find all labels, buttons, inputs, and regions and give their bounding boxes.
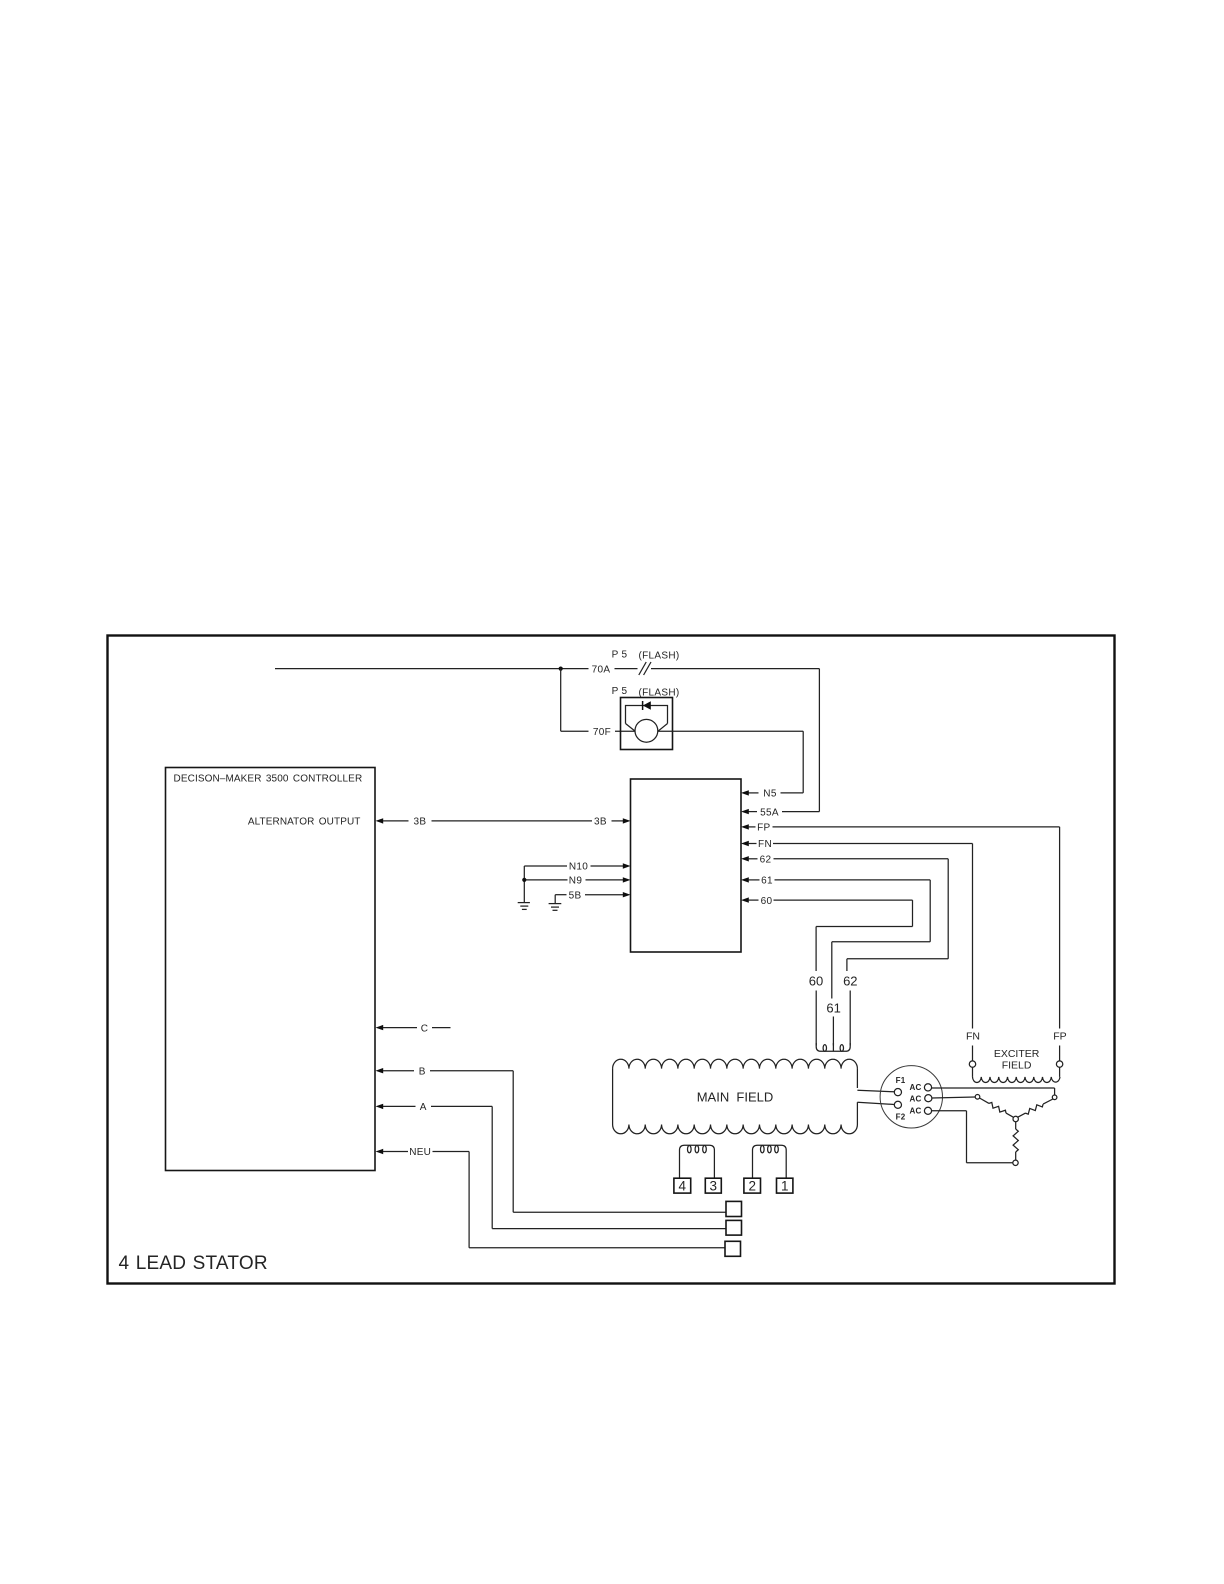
- wire ground drop N10/N9: [523, 866, 525, 902]
- svg-text:AC: AC: [910, 1107, 922, 1116]
- wire 61: [748, 880, 930, 1046]
- pin 3B controller arrow: [376, 818, 384, 823]
- svg-text:P 5: P 5: [612, 650, 628, 661]
- svg-text:EXCITER: EXCITER: [994, 1048, 1040, 1060]
- terminal AC3: [924, 1107, 931, 1114]
- svg-text:61: 61: [761, 876, 773, 887]
- wire B: [383, 1071, 726, 1213]
- wire AC2 to Y left node: [932, 1097, 975, 1098]
- svg-text:3B: 3B: [413, 817, 426, 828]
- wire 3B: [383, 820, 624, 822]
- main field coil: [613, 1059, 858, 1134]
- flash contact P5 (double slash): [639, 662, 651, 675]
- svg-text:70F: 70F: [593, 727, 611, 738]
- wire 60: [748, 900, 912, 1045]
- pin 62 arrow: [741, 856, 749, 861]
- stator lead square NEU: [725, 1241, 741, 1256]
- terminal AC2: [925, 1095, 932, 1102]
- svg-text:FP: FP: [1053, 1031, 1066, 1043]
- svg-text:60: 60: [761, 896, 773, 907]
- wire FP terminal drop: [1059, 1046, 1061, 1061]
- pin FN arrow: [741, 841, 749, 846]
- resistor R-right: [1018, 1099, 1053, 1117]
- svg-text:62: 62: [843, 973, 857, 988]
- wire N10: [524, 865, 623, 867]
- svg-text:FP: FP: [757, 823, 770, 834]
- svg-text:2: 2: [748, 1178, 756, 1193]
- pin B arrow: [376, 1068, 384, 1073]
- wire 70A horizontal: [275, 668, 819, 670]
- svg-text:70A: 70A: [592, 664, 611, 675]
- ground G2: [549, 904, 562, 911]
- resistor R-left: [980, 1098, 1014, 1117]
- svg-text:F1: F1: [896, 1076, 906, 1085]
- svg-text:A: A: [420, 1102, 427, 1113]
- connector box J1: [631, 779, 742, 952]
- wire N5 link (70F to N5 pin): [658, 731, 803, 793]
- ground G1: [518, 903, 530, 910]
- wire A: [383, 1106, 726, 1228]
- svg-text:FIELD: FIELD: [1002, 1060, 1032, 1072]
- node N9 junction: [522, 878, 526, 882]
- svg-text:NEU: NEU: [409, 1147, 431, 1158]
- resistor R-bottom: [1013, 1122, 1018, 1160]
- rotating rectifier circle: [880, 1066, 942, 1128]
- pin arrow 5B: [623, 892, 631, 897]
- CT coil left (4-3): [680, 1145, 715, 1178]
- pin arrow N10: [623, 863, 631, 868]
- wire N9: [524, 879, 623, 881]
- wire NEU: [383, 1152, 725, 1248]
- wire F1 lead: [857, 1090, 894, 1092]
- controller box: [166, 768, 376, 1171]
- svg-text:N9: N9: [569, 876, 583, 887]
- svg-text:AC: AC: [910, 1083, 922, 1092]
- svg-text:4 LEAD STATOR: 4 LEAD STATOR: [119, 1253, 268, 1274]
- pin NEU arrow: [376, 1149, 384, 1154]
- pin arrow N5: [741, 790, 749, 795]
- Y node center: [1013, 1116, 1018, 1121]
- terminal circle FP: [1056, 1061, 1062, 1067]
- wire 62: [748, 859, 948, 1046]
- svg-text:3B: 3B: [594, 817, 607, 828]
- pin FP arrow: [741, 824, 749, 829]
- winding 60-61-62 taps: [816, 1043, 850, 1051]
- svg-text:62: 62: [760, 855, 772, 866]
- svg-text:N10: N10: [569, 862, 588, 873]
- wire FN: [748, 844, 972, 1029]
- svg-text:B: B: [419, 1066, 426, 1077]
- wire AC1 to Y right node: [932, 1088, 1055, 1095]
- Y node left: [975, 1095, 980, 1100]
- flash plug internal loop: [626, 706, 668, 732]
- pin arrow 55A: [741, 809, 749, 814]
- stator lead square A: [726, 1220, 742, 1235]
- terminal F2: [894, 1101, 901, 1108]
- pin A arrow: [376, 1104, 384, 1109]
- node 70A junction: [559, 667, 563, 671]
- svg-text:5B: 5B: [569, 890, 582, 901]
- wire 55A link (70A to 55A pin): [748, 669, 819, 812]
- svg-text:DECISON–MAKER 3500 CONTROLLER: DECISON–MAKER 3500 CONTROLLER: [174, 774, 363, 785]
- pin 61 arrow: [741, 877, 749, 882]
- wire C stub: [383, 1027, 451, 1029]
- svg-text:F2: F2: [896, 1112, 906, 1121]
- pin C arrow: [376, 1025, 384, 1030]
- svg-text:3: 3: [710, 1178, 718, 1193]
- svg-text:FN: FN: [758, 839, 772, 850]
- wire AC3 to Y bottom node: [932, 1111, 1013, 1163]
- svg-text:P 5: P 5: [612, 686, 628, 697]
- svg-text:61: 61: [826, 1001, 840, 1016]
- Y node right: [1052, 1095, 1057, 1100]
- svg-text:1: 1: [781, 1178, 789, 1193]
- pin 60 arrow: [741, 897, 749, 902]
- exciter field coil: [973, 1067, 1060, 1082]
- svg-text:ALTERNATOR OUTPUT: ALTERNATOR OUTPUT: [248, 817, 361, 828]
- stator lead square B: [726, 1201, 742, 1216]
- wire 70F: [561, 669, 635, 732]
- terminal box 1: [777, 1178, 793, 1193]
- pin arrow 3B into connector: [623, 818, 631, 823]
- svg-text:(FLASH): (FLASH): [639, 651, 680, 662]
- flash plug P5 box: [621, 698, 673, 750]
- svg-text:MAIN FIELD: MAIN FIELD: [697, 1089, 774, 1104]
- terminal box 4: [674, 1178, 691, 1193]
- svg-text:55A: 55A: [760, 807, 779, 818]
- wire FN terminal drop: [972, 1046, 974, 1061]
- svg-text:C: C: [421, 1023, 429, 1034]
- svg-text:N5: N5: [763, 789, 777, 800]
- svg-text:4: 4: [679, 1178, 687, 1193]
- svg-text:AC: AC: [910, 1094, 922, 1103]
- wire ground drop 5B: [554, 895, 556, 903]
- svg-text:60: 60: [809, 973, 823, 988]
- Y node bottom: [1013, 1160, 1018, 1165]
- wire FP: [748, 827, 1059, 1029]
- terminal AC1: [924, 1084, 931, 1091]
- diode D1: [643, 701, 651, 710]
- CT coil right (2-1): [753, 1145, 787, 1178]
- svg-text:FN: FN: [966, 1031, 980, 1043]
- lamp circle: [635, 719, 658, 742]
- terminal F1: [894, 1089, 901, 1096]
- wire 5B: [555, 894, 623, 896]
- terminal box 2: [744, 1178, 761, 1193]
- terminal circle FN: [969, 1061, 975, 1067]
- wire F2 lead: [857, 1102, 894, 1104]
- terminal box 3: [705, 1178, 721, 1193]
- pin arrow N9: [623, 877, 631, 882]
